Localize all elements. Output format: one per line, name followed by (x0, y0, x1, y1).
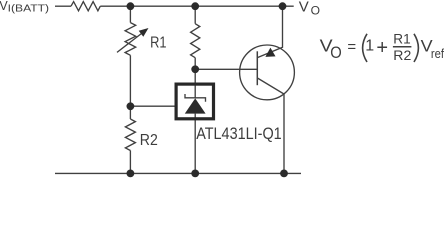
resistor (bias, unlabeled) zigzag (191, 24, 200, 58)
fraction bar R1/R2 (393, 46, 412, 48)
svg-text:O: O (330, 43, 342, 62)
formula VO = (1 + R1/R2)Vref (320, 30, 445, 63)
resistor R2 zigzag (125, 119, 135, 151)
Q1 base bar (256, 51, 258, 85)
svg-text:I(BATT): I(BATT) (8, 3, 50, 14)
formula right parenthesis (414, 34, 418, 62)
zener diode anode triangle (185, 98, 206, 113)
junction dot ground / R2 (126, 170, 134, 178)
junction dot ground / collector (280, 170, 288, 178)
svg-text:R2: R2 (393, 47, 411, 63)
svg-text:+: + (376, 37, 388, 59)
wire cathode (node into box) (194, 69, 196, 98)
ATL431LI-Q1 device box (176, 84, 213, 119)
Q1 emitter arrowhead (265, 48, 275, 57)
svg-text:V: V (299, 0, 309, 15)
wire REF node to box (130, 105, 174, 107)
svg-text:ref: ref (431, 46, 444, 61)
formula left parenthesis (363, 34, 367, 62)
svg-text:R1: R1 (393, 30, 411, 46)
wire bias resistor bottom lead (194, 58, 196, 70)
wire base (node to Q1 base) (195, 68, 257, 70)
svg-text:=: = (347, 39, 356, 56)
resistor R1 (variable) zigzag (125, 23, 136, 56)
wire anode (box to ground rail) (194, 114, 196, 174)
node VI(BATT) input wire (55, 5, 71, 7)
svg-text:ATL431LI-Q1: ATL431LI-Q1 (196, 125, 282, 143)
junction dot base node (191, 65, 199, 73)
R1 wiper arrowhead (139, 28, 149, 37)
junction dot REF node (126, 102, 134, 110)
wire R1 bottom lead to node (129, 55, 131, 119)
svg-text:R1: R1 (150, 35, 166, 52)
wire R1 top lead (129, 6, 131, 22)
junction dot top rail / R1 (126, 2, 134, 10)
transistor Q1 body circle (240, 45, 295, 100)
svg-text:R2: R2 (140, 132, 158, 149)
wire top rail (100, 5, 293, 7)
Q1 collector diagonal and wire (257, 78, 284, 173)
svg-text:1: 1 (365, 38, 374, 55)
wire R2 bottom lead (129, 151, 131, 174)
Q1 emitter wire and diagonal (257, 6, 282, 57)
junction dot top rail / VO (279, 2, 287, 10)
ground rail (55, 172, 301, 174)
svg-text:O: O (311, 4, 320, 18)
wire bias resistor top lead (194, 6, 196, 24)
R1 wiper arrow shaft (117, 34, 142, 53)
zener cathode bar (185, 94, 206, 102)
junction dot ground / anode (191, 170, 199, 178)
resistor (series, unlabeled) (71, 2, 100, 11)
junction dot top rail / bias resistor (191, 2, 199, 10)
